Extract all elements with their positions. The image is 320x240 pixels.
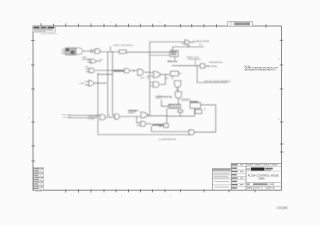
svg-text:2: 2 [29,58,31,61]
svg-text:7: 7 [71,195,73,198]
svg-text:LIMIT SW CONTROL FEEDBACK 2: LIMIT SW CONTROL FEEDBACK 2 [204,80,231,83]
svg-text:5: 5 [121,195,123,198]
svg-text:CLOSE: CLOSE [88,118,95,120]
svg-text:NO PRESS: NO PRESS [208,66,218,68]
svg-text:L5R: L5R [85,67,89,69]
svg-text:LOW LIM: LOW LIM [82,59,90,61]
svg-text:RESET LOGIC: RESET LOGIC [187,57,200,59]
svg-text:VM58: VM58 [258,177,265,180]
svg-text:L5R 2: L5R 2 [140,77,145,79]
svg-text:7: 7 [59,21,61,24]
svg-text:(CLOSE) PRESS SW: (CLOSE) PRESS SW [159,139,177,141]
svg-text:FF: FF [171,52,173,54]
svg-text:OPEN CMD: OPEN CMD [62,114,72,116]
svg-text:TP2: TP2 [199,44,202,46]
svg-text:22: 22 [99,61,101,63]
svg-text:~LOW~: ~LOW~ [78,83,84,85]
svg-text:TO VALVE DRIVER: TO VALVE DRIVER [193,40,210,43]
svg-text:5: 5 [110,21,112,24]
svg-text:2: 2 [278,58,280,61]
svg-text:PRESSURE SW: PRESSURE SW [209,62,223,64]
svg-text:4: 4 [278,118,280,121]
svg-text:4: 4 [29,116,31,119]
svg-text:CLOSE CMD: CLOSE CMD [62,117,73,119]
svg-text:VALUES ARE IN OHMS AND WATTS 5: VALUES ARE IN OHMS AND WATTS 5% [245,69,276,72]
svg-text:SW: SW [159,126,162,128]
svg-text:DRIVE 2: DRIVE 2 [128,112,135,114]
svg-text:L5R: L5R [165,78,169,80]
svg-text:3: 3 [170,195,172,198]
svg-text:14169: 14169 [277,206,288,210]
svg-text:+28VDC CONT SUPPLY: +28VDC CONT SUPPLY [113,45,135,47]
svg-text:R S T: R S T [168,60,172,62]
svg-text:3: 3 [159,21,161,24]
